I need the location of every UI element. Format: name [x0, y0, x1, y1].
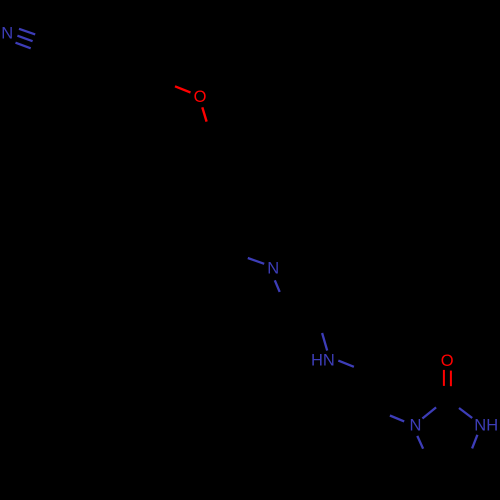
bond O-C lower half — [202, 107, 206, 121]
bond NH-C right half — [338, 361, 354, 367]
C2=O double bond line left half — [443, 370, 445, 386]
bond C-N upper-left half — [248, 258, 264, 264]
svg-text:N: N — [1, 25, 13, 43]
svg-text:NH: NH — [474, 416, 498, 434]
bond CH2-N1 left half — [390, 416, 404, 422]
svg-text:O: O — [194, 88, 207, 106]
bond N3-C4 half — [472, 435, 477, 449]
bond C-O upper-left half — [175, 86, 191, 92]
nitrile C#N triple bond line 2 — [17, 36, 32, 42]
nitrile C#N triple bond line 3 — [16, 43, 31, 49]
bond N1-C5 half — [417, 436, 423, 449]
bond C2-N3 half — [459, 408, 472, 418]
C2=O double bond line right half — [450, 371, 452, 387]
bond N1-C2 half — [422, 407, 436, 418]
bond N-C lower half — [275, 280, 280, 292]
svg-text:N: N — [410, 417, 422, 435]
svg-text:HN: HN — [311, 352, 335, 370]
bond C-NH upper half — [322, 333, 327, 351]
nitrile C#N triple bond line 1 — [19, 29, 35, 35]
svg-text:N: N — [267, 260, 279, 278]
svg-text:O: O — [441, 352, 454, 370]
